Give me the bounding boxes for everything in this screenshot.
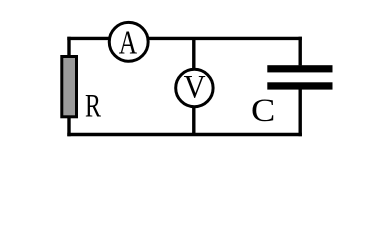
- label V (voltmeter): [184, 68, 206, 104]
- wire top (node between R, ammeter and C): [67, 37, 302, 40]
- label R (resistor): [85, 88, 102, 125]
- resistor R (grey slab body on left wire): [62, 57, 77, 117]
- capacitor C bottom plate: [267, 82, 332, 89]
- svg-text:V: V: [184, 68, 206, 104]
- voltmeter V (circle on middle branch): [176, 69, 213, 106]
- wire left (through resistor R): [67, 37, 70, 137]
- wire bottom (node between R, voltmeter branch and C): [67, 133, 302, 136]
- svg-text:A: A: [119, 23, 138, 62]
- wire middle branch (top wire to bottom wire, through voltmeter): [192, 38, 195, 134]
- svg-text:C: C: [251, 93, 275, 129]
- ammeter A (circle on top wire): [109, 22, 148, 61]
- label A (ammeter): [119, 23, 138, 62]
- wire right lower (capacitor bottom plate to bottom corner): [299, 89, 302, 136]
- svg-text:R: R: [85, 88, 102, 125]
- label C (capacitor): [251, 93, 275, 129]
- capacitor C top plate: [267, 65, 332, 72]
- wire right upper (top corner to capacitor top plate): [299, 37, 302, 66]
